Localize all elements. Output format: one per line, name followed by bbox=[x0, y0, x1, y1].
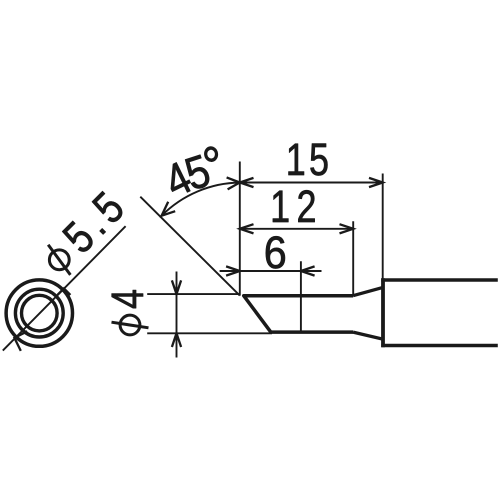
text 45deg (glyphs follow the arc) bbox=[157, 152, 200, 208]
extension line for 12 at x=353.2 bbox=[352, 221, 354, 295]
phi4 extension top bbox=[147, 293, 239, 295]
shank front face bbox=[381, 278, 385, 347]
arrow dim6 right (outside, points left) bbox=[301, 266, 315, 275]
text 6 bbox=[264, 228, 287, 278]
extension line at tip vertex x=239.8 bbox=[239, 162, 241, 296]
text phi4 (rotated 90 CCW) bbox=[102, 289, 153, 335]
arrow phi4 top (points down) bbox=[172, 280, 181, 294]
taper top bbox=[353, 287, 383, 295]
dimension line 15 bbox=[240, 182, 383, 184]
arrow dim12 right bbox=[340, 224, 354, 233]
arrow dim6 left (outside, points right) bbox=[226, 266, 240, 275]
arrow dim15 left bbox=[240, 178, 254, 187]
end view: inner circle bbox=[22, 295, 58, 331]
text 12 bbox=[270, 181, 323, 232]
dimension line 6 (outside arrows) bbox=[220, 270, 322, 272]
phi4 dimension line bbox=[176, 272, 178, 358]
arrow dim15 right bbox=[369, 178, 383, 187]
end view: middle circle bbox=[15, 289, 63, 337]
45 deg reference line bbox=[140, 197, 240, 296]
end view: outer circle bbox=[6, 280, 72, 346]
text phi5.5 (rotated 45 CCW) bbox=[33, 178, 138, 283]
tip outline (chamfered cone tip profile) bbox=[244, 296, 353, 332]
45 deg angle arc bbox=[162, 183, 240, 216]
arrow arc lower (points down-left) bbox=[162, 202, 176, 216]
phi4 extension bottom bbox=[147, 332, 272, 334]
arrow dim12 left bbox=[240, 224, 254, 233]
shank top bbox=[381, 278, 498, 282]
phi5.5 leader line through circles bbox=[3, 226, 126, 350]
arrow phi5.5 lower (points down-left) bbox=[14, 331, 27, 351]
shank bottom bbox=[381, 344, 498, 348]
svg-text:15: 15 bbox=[286, 134, 332, 185]
taper bottom bbox=[353, 332, 383, 339]
phi symbol bbox=[120, 315, 140, 335]
extension line for 15 at x=381.8 bbox=[382, 174, 384, 280]
svg-text:4: 4 bbox=[102, 289, 153, 309]
arrow phi4 bottom (points up) bbox=[172, 333, 181, 347]
arrow phi5.5 upper (points up-right) bbox=[57, 288, 70, 295]
phi symbol bbox=[45, 246, 73, 274]
arrowheads bbox=[14, 177, 382, 351]
arrow arc top (points right) bbox=[227, 177, 240, 189]
svg-text:6: 6 bbox=[264, 228, 287, 278]
dimension line 12 bbox=[240, 228, 353, 230]
text 15 bbox=[286, 134, 332, 185]
svg-text:12: 12 bbox=[270, 181, 323, 232]
extension line for 6 at x=300.9 bbox=[300, 261, 302, 332]
